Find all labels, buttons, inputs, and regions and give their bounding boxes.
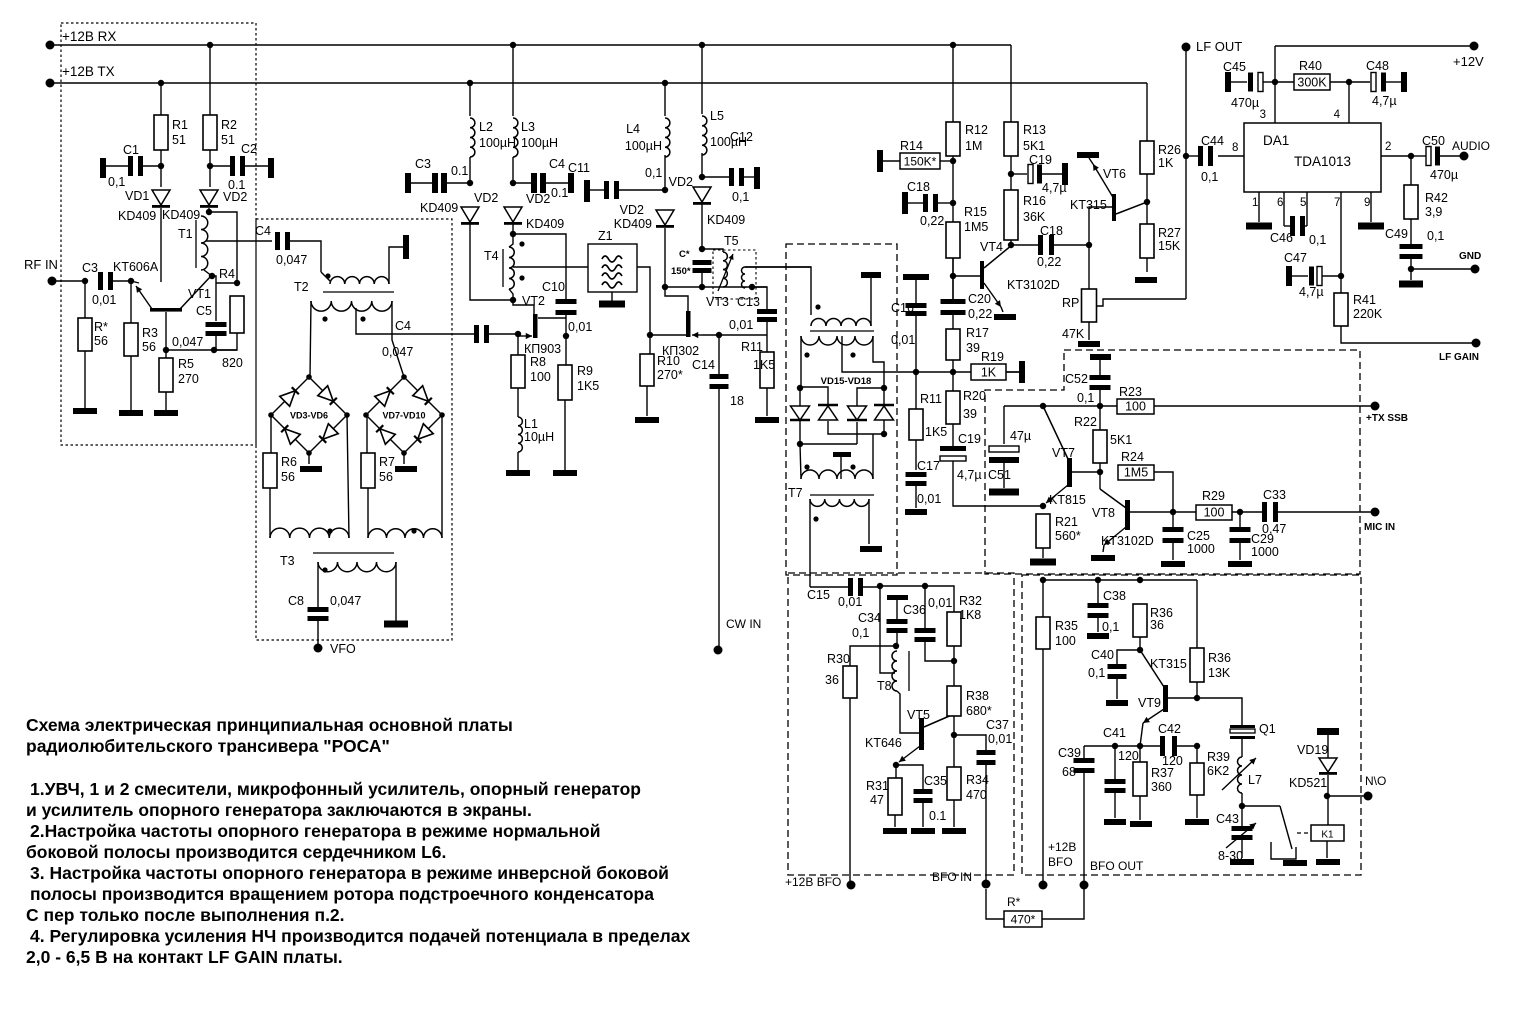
value C* 150	[671, 266, 691, 277]
label R3	[142, 326, 158, 340]
wire R42 bottom	[1410, 219, 1412, 244]
phase dot T2 primary	[325, 273, 330, 278]
ground R*	[73, 408, 97, 414]
junction R4 top	[234, 280, 240, 286]
dashed link K1	[1297, 832, 1311, 834]
svg-text:1K5: 1K5	[925, 425, 947, 439]
svg-text:100: 100	[1125, 400, 1146, 414]
wire R26 bottom	[1146, 174, 1148, 224]
wire C43 stem	[1241, 806, 1243, 826]
svg-text:T5: T5	[724, 234, 739, 248]
resistor R22	[1093, 430, 1107, 463]
value VD2e KD409	[707, 213, 745, 227]
value C41 120	[1118, 749, 1139, 763]
label C4a	[255, 224, 271, 238]
label VD15-VD18	[821, 376, 872, 387]
junction Z1 out	[647, 332, 653, 338]
phase dot T6 sec b	[850, 352, 855, 357]
label C18a	[907, 180, 930, 194]
label C37	[986, 718, 1009, 732]
transistor VT7 base wire	[1043, 406, 1068, 459]
svg-text:C12: C12	[730, 130, 753, 144]
wire R35 stem	[1042, 580, 1044, 617]
wire L2 mid	[469, 157, 471, 183]
wire T6 prim right	[870, 278, 872, 326]
junction C36 top	[922, 583, 928, 589]
junction ring TL	[797, 385, 803, 391]
junction C15 out	[877, 583, 883, 589]
svg-text:39: 39	[963, 407, 977, 421]
transistor VT9 base bar	[1163, 685, 1168, 712]
value R42 3,9	[1425, 205, 1442, 219]
wire C19a right	[1042, 173, 1062, 175]
wire C1 left	[106, 165, 128, 167]
wire R6 bottom	[269, 488, 271, 538]
junction Cstar bottom	[699, 284, 705, 290]
capacitor C47	[1309, 267, 1322, 286]
svg-text:T4: T4	[484, 249, 499, 263]
capacitor C48	[1371, 73, 1386, 92]
junction C29 node	[1237, 509, 1243, 515]
net LF OUT label	[1196, 39, 1242, 54]
resistor R11a	[760, 352, 774, 388]
wire VT3 gate in	[702, 334, 719, 336]
label L7	[1248, 773, 1262, 787]
svg-text:0,047: 0,047	[382, 345, 413, 359]
wire L5 mid	[701, 153, 703, 177]
capacitor C35	[914, 789, 933, 803]
terminal RF IN	[48, 277, 57, 286]
svg-text:GND: GND	[1459, 251, 1481, 262]
svg-text:39: 39	[966, 341, 980, 355]
resistor R21	[1036, 514, 1050, 548]
label R35	[1055, 619, 1078, 633]
resistor R10	[640, 354, 654, 386]
value C11 0,1	[645, 166, 662, 180]
ground C29	[1228, 561, 1252, 567]
label C38	[1103, 589, 1126, 603]
wire C49 bottom	[1410, 259, 1412, 280]
wire C3b left	[411, 182, 432, 184]
junction Cstar top	[699, 246, 705, 252]
svg-text:R7: R7	[379, 455, 395, 469]
label T1	[178, 227, 193, 241]
capacitor C11	[604, 181, 619, 199]
capacitor C5	[206, 322, 227, 336]
svg-text:1K5: 1K5	[753, 358, 775, 372]
value R27 15K	[1158, 239, 1181, 253]
crystal filter Z1	[588, 244, 637, 292]
resistor R13	[1004, 122, 1018, 156]
wire emitter bus	[1084, 745, 1160, 747]
label R24	[1121, 450, 1144, 464]
capacitor C45	[1248, 73, 1263, 92]
label C*	[679, 249, 690, 260]
wire C12 right	[744, 176, 754, 178]
wire bus y372	[916, 371, 1021, 373]
terminal BFO IN	[982, 880, 991, 889]
svg-text:VD2: VD2	[620, 203, 644, 217]
transistor VT9 emitter	[1143, 707, 1167, 723]
svg-text:100µH: 100µH	[479, 136, 516, 150]
svg-text:C46: C46	[1270, 231, 1293, 245]
value C10 0,01	[568, 320, 592, 334]
junction C44 node	[1183, 153, 1189, 159]
phase dot T3 sec	[322, 567, 327, 572]
label C44	[1201, 134, 1224, 148]
svg-text:0,047: 0,047	[330, 594, 361, 608]
wire R22 bottom	[1099, 463, 1101, 472]
wire R22 top	[1099, 406, 1101, 430]
label C41	[1103, 726, 1126, 740]
svg-text:1M5: 1M5	[1124, 466, 1148, 480]
value L1 10uH	[524, 430, 554, 444]
svg-text:L1: L1	[524, 417, 538, 431]
value C38 0,1	[1102, 620, 1119, 634]
value VT2 KP903	[524, 342, 561, 356]
ground R3	[119, 410, 143, 416]
svg-text:N\O: N\O	[1365, 774, 1386, 788]
phase dot T3 prim b	[411, 528, 416, 533]
ground C49	[1399, 281, 1423, 288]
svg-text:Z1: Z1	[598, 229, 613, 243]
label T5	[724, 234, 739, 248]
capacitor C43	[1232, 826, 1253, 840]
resistor R40	[1294, 74, 1330, 90]
svg-text:VD2: VD2	[669, 175, 693, 189]
label Q1	[1259, 722, 1276, 736]
phase dot T3 prim a	[327, 528, 332, 533]
value R1 51	[172, 133, 186, 147]
value C47 4,7u	[1299, 285, 1324, 299]
svg-text:C29: C29	[1251, 532, 1274, 546]
svg-text:C47: C47	[1284, 251, 1307, 265]
value C48 4,7u	[1372, 94, 1397, 108]
wire C36 bottom	[925, 642, 954, 661]
resistor R2	[203, 115, 217, 150]
wire C10 bottom	[565, 315, 567, 336]
value C34 0,1	[852, 626, 869, 640]
svg-text:R10: R10	[657, 354, 680, 368]
label R37	[1151, 766, 1174, 780]
svg-text:+12B RX: +12B RX	[62, 29, 116, 44]
wire T6 sec left	[800, 336, 802, 387]
junction ring BL	[797, 441, 803, 447]
svg-text:R37: R37	[1151, 766, 1174, 780]
junction R34 top	[951, 732, 957, 738]
wire R34 bottom	[953, 800, 955, 827]
wire L3 mid	[512, 157, 514, 183]
transformer T5 secondary	[742, 267, 746, 288]
label VD2c	[526, 192, 550, 206]
wire R12 top	[952, 45, 954, 122]
label VT3	[706, 295, 729, 309]
value C52 0,1	[1077, 391, 1094, 405]
label VT4	[980, 240, 1003, 254]
value C42 120	[1162, 754, 1183, 768]
notes text block	[26, 715, 690, 967]
ground R39	[1185, 819, 1209, 825]
svg-text:R42: R42	[1425, 191, 1448, 205]
label R2	[221, 118, 237, 132]
transistor VT6 emitter	[1093, 164, 1114, 199]
ground R31	[883, 828, 907, 834]
svg-text:VT4: VT4	[980, 240, 1003, 254]
capacitor C36	[915, 628, 936, 642]
wire R2 bottom	[209, 150, 211, 187]
ground C35	[911, 828, 935, 834]
capacitor C49	[1400, 244, 1423, 259]
svg-text:R22: R22	[1074, 415, 1097, 429]
capacitor C46	[1290, 216, 1305, 236]
pin 7	[1334, 197, 1340, 209]
svg-text:C38: C38	[1103, 589, 1126, 603]
svg-text:R26: R26	[1158, 143, 1181, 157]
wire Z1 ground stub	[611, 292, 613, 301]
svg-text:R11: R11	[920, 392, 942, 406]
value C45 470u	[1231, 96, 1259, 110]
net VFO label	[330, 642, 356, 656]
ground T7	[860, 546, 882, 552]
svg-text:C15: C15	[807, 588, 830, 602]
resistor R37	[1133, 762, 1147, 796]
phase dot T2 sec a	[322, 316, 327, 321]
svg-text:0,1: 0,1	[732, 190, 749, 204]
net CW IN label	[726, 617, 761, 631]
svg-text:0.1: 0.1	[929, 809, 946, 823]
label R31	[866, 779, 889, 793]
junction R36a top	[1137, 577, 1143, 583]
screen box BFO gen	[788, 573, 1014, 875]
svg-text:680*: 680*	[966, 704, 992, 718]
value R9 1K5	[577, 379, 599, 393]
wire T2 sec left	[310, 301, 311, 377]
svg-text:RF IN: RF IN	[24, 257, 58, 272]
pin 1	[1252, 197, 1258, 209]
wire L5 bottom	[701, 204, 703, 249]
label R22	[1074, 415, 1097, 429]
wire C51 bottom	[1003, 463, 1005, 488]
net GND label	[1459, 251, 1481, 262]
wire R11b bottom	[915, 440, 917, 470]
wire R36b bottom	[1196, 682, 1198, 698]
wire ring bottom right	[828, 421, 884, 434]
ground Z1	[599, 301, 625, 308]
label C1	[123, 143, 139, 157]
label R11a	[741, 340, 763, 354]
resistor R26	[1140, 141, 1154, 174]
wire C35 bottom	[922, 803, 924, 827]
svg-text:KD409: KD409	[526, 217, 564, 231]
svg-text:100µH: 100µH	[625, 139, 662, 153]
resistor R34	[947, 767, 961, 800]
wire C25 stem	[1172, 512, 1174, 527]
potentiometer RP wiper	[1096, 299, 1186, 306]
value R38 680*	[966, 704, 992, 718]
wire T2 sec right	[392, 301, 404, 377]
svg-text:1000: 1000	[1187, 542, 1215, 556]
wire Z1 out	[637, 267, 650, 335]
junction C45-R40	[1272, 79, 1278, 85]
crystal Q1	[1230, 725, 1255, 739]
wire R21 bottom	[1042, 548, 1044, 558]
value R36b 13K	[1208, 666, 1231, 680]
transistor VT3 channel	[686, 311, 691, 337]
value C2 0.1	[228, 178, 245, 192]
junction C5 bottom	[211, 347, 217, 353]
wire VT9 collector	[1168, 697, 1196, 699]
wire C2 left	[210, 165, 230, 167]
wire T2 prim right	[389, 247, 403, 284]
wire C45 right	[1263, 81, 1275, 83]
transformer T8 core	[908, 651, 910, 691]
value R32 1K8	[959, 608, 981, 622]
value C36 0,01	[928, 596, 952, 610]
value R37 360	[1151, 780, 1172, 794]
junction C3 in	[82, 278, 88, 284]
svg-text:R21: R21	[1055, 515, 1078, 529]
wire pin4	[1348, 82, 1350, 123]
label R30	[827, 652, 850, 666]
value R20 39	[963, 407, 977, 421]
svg-text:R32: R32	[959, 594, 982, 608]
svg-text:0.1: 0.1	[451, 164, 468, 178]
wire C37 wire	[954, 735, 986, 750]
svg-text:VT1: VT1	[188, 287, 211, 301]
ground VT4	[994, 314, 1016, 320]
svg-text:R30: R30	[827, 652, 850, 666]
label VD19	[1297, 743, 1328, 757]
terminal bar C1	[100, 158, 106, 178]
svg-text:56: 56	[281, 470, 295, 484]
wire Cstar bottom	[701, 273, 703, 287]
svg-text:Схема электрическая принципиал: Схема электрическая принципиальная основ…	[26, 715, 513, 735]
wire C41 bottom	[1114, 793, 1116, 818]
wire T7 prim left	[800, 444, 801, 479]
svg-text:C3: C3	[415, 157, 431, 171]
svg-text:L4: L4	[626, 122, 640, 136]
wire bfo top	[880, 586, 954, 612]
svg-text:C5: C5	[196, 304, 212, 318]
label C16	[891, 301, 914, 315]
wire C46 left	[1284, 225, 1290, 227]
ground R27	[1135, 277, 1157, 283]
label R5	[178, 357, 194, 371]
label VD2d	[620, 203, 644, 217]
net AUDIO label	[1452, 139, 1490, 153]
svg-text:0,047: 0,047	[172, 335, 203, 349]
svg-text:470µ: 470µ	[1430, 168, 1458, 182]
svg-text:C4: C4	[549, 157, 565, 171]
value R2 51	[221, 133, 235, 147]
junction R17 bus	[950, 369, 956, 375]
wire C25 bottom	[1172, 543, 1174, 560]
value R36a 36	[1150, 618, 1164, 632]
capacitor C37	[977, 750, 996, 765]
wire mixer2 bar stem	[840, 457, 842, 479]
ground T3	[384, 621, 408, 628]
phase dot T4 b	[519, 275, 524, 280]
junction VT9 collector	[1194, 695, 1200, 701]
ground C17	[905, 509, 927, 515]
wire R26 top	[1146, 83, 1148, 141]
ground pin1	[1246, 223, 1272, 230]
svg-text:C2: C2	[241, 142, 257, 156]
pin 6	[1277, 197, 1283, 209]
svg-text:1K: 1K	[1158, 156, 1174, 170]
capacitor C4c	[531, 173, 546, 193]
svg-text:R41: R41	[1353, 293, 1376, 307]
pin 8	[1232, 142, 1238, 154]
wire R16 bottom	[1010, 240, 1012, 245]
diode ring VD3-VD6	[271, 377, 347, 453]
ground R34	[942, 828, 966, 834]
svg-text:0,22: 0,22	[1037, 255, 1061, 269]
resistor R20	[946, 391, 960, 424]
label C14	[692, 358, 715, 372]
resistor R15	[946, 222, 960, 258]
wire +12B RX rail	[50, 44, 1011, 46]
wire T6 tap out	[842, 336, 915, 372]
wire R41 bottom	[1341, 326, 1476, 343]
svg-text:VFO: VFO	[330, 642, 356, 656]
label L4	[626, 122, 640, 136]
value R7 56	[379, 470, 393, 484]
value R11b 1K5	[925, 425, 947, 439]
wire C4c right	[546, 182, 568, 184]
svg-text:2.Настройка частоты опорного г: 2.Настройка частоты опорного генератора …	[30, 821, 601, 841]
svg-text:0,1: 0,1	[1309, 233, 1326, 247]
wire C8 bottom	[317, 621, 319, 647]
svg-text:VT3: VT3	[706, 295, 729, 309]
junction R1 top	[158, 80, 164, 86]
wire C46 right	[1305, 225, 1307, 227]
wire pin9	[1370, 192, 1372, 222]
junction VT4 collector	[1008, 242, 1014, 248]
junction VT1 emitter node	[163, 347, 169, 353]
pin 2	[1385, 141, 1391, 153]
wire R15 bottom	[952, 258, 954, 299]
label R14	[900, 139, 923, 153]
svg-text:4,7µ: 4,7µ	[1042, 181, 1067, 195]
svg-text:5: 5	[1300, 197, 1306, 209]
wire C38 bottom	[1097, 618, 1099, 632]
wire R10 top	[649, 335, 651, 354]
value R5 270	[178, 372, 199, 386]
wire L4 top	[664, 83, 666, 116]
label C4c	[549, 157, 565, 171]
svg-text:R31: R31	[866, 779, 889, 793]
label L1	[524, 417, 538, 431]
wire C19b bottom	[953, 461, 1043, 506]
resistor R1	[154, 115, 168, 150]
wire Q1 bottom	[1241, 739, 1243, 757]
junction L2-C3	[467, 180, 473, 186]
transformer T3 core	[313, 552, 394, 554]
svg-text:K1: K1	[1321, 830, 1334, 841]
svg-text:470µ: 470µ	[1231, 96, 1259, 110]
svg-text:BFO: BFO	[1048, 855, 1073, 869]
svg-text:13K: 13K	[1208, 666, 1231, 680]
ground C51	[989, 489, 1019, 496]
svg-text:C10: C10	[542, 280, 565, 294]
label C20	[968, 292, 991, 306]
resistor R30	[843, 666, 857, 698]
svg-text:R4: R4	[219, 267, 235, 281]
wire R3 bottom	[130, 356, 132, 410]
label R26	[1158, 143, 1181, 157]
svg-text:0,01: 0,01	[988, 732, 1012, 746]
